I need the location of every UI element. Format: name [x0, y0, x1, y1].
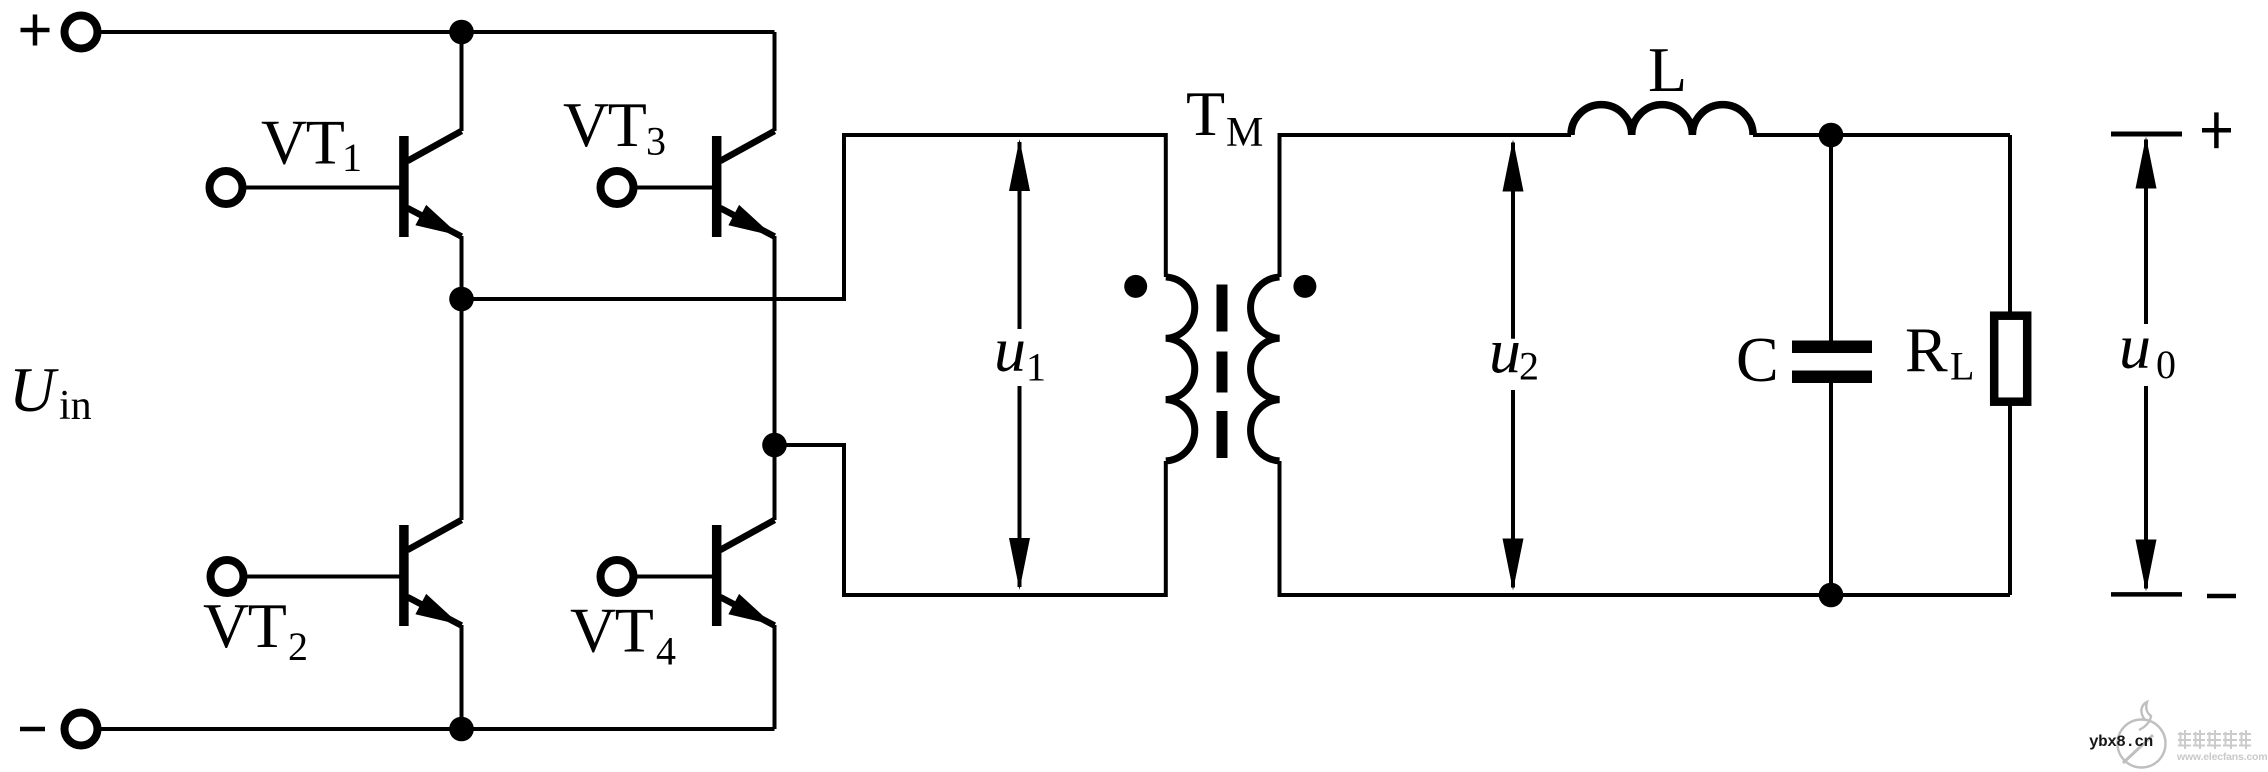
- svg-text:L: L: [1648, 34, 1687, 105]
- svg-text:M: M: [1226, 110, 1263, 156]
- node A (VT1-VT2 midpoint): [449, 287, 474, 312]
- svg-text:VT: VT: [261, 107, 345, 178]
- wire VT1 emitter to node A: [460, 236, 464, 300]
- svg-text:VT: VT: [203, 590, 287, 661]
- svg-text:2: 2: [288, 624, 308, 669]
- svg-text:VT: VT: [563, 89, 647, 160]
- output + sign: [2202, 112, 2231, 148]
- minus sign (input -): [20, 727, 45, 732]
- watermark logo circle: [2118, 702, 2166, 768]
- svg-text:0: 0: [2156, 342, 2176, 387]
- svg-text:u: u: [2119, 311, 2151, 382]
- transformer TM secondary winding: [1251, 133, 1280, 597]
- svg-text:4: 4: [656, 629, 676, 674]
- resistor RL body: [1994, 316, 2027, 402]
- wire VT3 emitter to node B: [773, 236, 777, 446]
- wire node A to VT2 collector: [460, 299, 464, 520]
- transistor VT3: [601, 131, 775, 237]
- svg-text:C: C: [1736, 324, 1779, 395]
- wire top input rail: [100, 30, 775, 34]
- transistor VT4: [601, 520, 775, 626]
- wire RL bottom lead: [2008, 401, 2012, 595]
- watermark chinese strokes: [2178, 730, 2251, 749]
- svg-text:1: 1: [342, 135, 362, 180]
- transformer TM core (dashed): [1217, 285, 1228, 459]
- measurement arrow u1: [1009, 139, 1030, 590]
- junction bottom rail / VT2 emitter: [449, 717, 474, 742]
- transistor VT1: [210, 131, 462, 237]
- svg-text:VT: VT: [570, 595, 654, 666]
- measurement arrow u0: [2136, 137, 2157, 592]
- polarity dot primary: [1124, 275, 1147, 298]
- wire primary top horizontal: [842, 133, 1166, 137]
- tick bottom of u0: [2111, 592, 2182, 597]
- wire primary downer down: [842, 443, 846, 597]
- svg-text:2: 2: [1519, 344, 1539, 389]
- svg-text:T: T: [1186, 78, 1225, 149]
- polarity dot secondary: [1293, 275, 1316, 298]
- wire secondary bottom rail: [1280, 593, 2011, 597]
- wire VT4 emitter vertical: [773, 625, 777, 729]
- svg-text:ybx8.cn: ybx8.cn: [2089, 733, 2153, 751]
- svg-text:L: L: [1950, 344, 1974, 389]
- svg-text:1: 1: [1026, 345, 1046, 390]
- svg-text:u: u: [994, 314, 1026, 385]
- svg-text:in: in: [59, 383, 92, 429]
- svg-text:www.elecfans.com: www.elecfans.com: [2176, 751, 2267, 763]
- svg-text:u: u: [1489, 316, 1521, 387]
- wire node B to VT4 collector: [773, 445, 777, 520]
- wire secondary top to L: [1280, 133, 1572, 137]
- svg-text:R: R: [1905, 315, 1948, 386]
- capacitor C plates: [1792, 341, 1872, 384]
- wire node A to primary riser: [462, 297, 845, 301]
- wire VT3 collector vertical: [773, 32, 777, 131]
- input - terminal: [65, 713, 98, 746]
- input + terminal: [65, 16, 98, 49]
- wire C top lead: [1829, 135, 1833, 341]
- wire node B to primary downer: [775, 443, 847, 447]
- transformer TM primary winding: [1166, 133, 1195, 597]
- junction C top: [1819, 123, 1844, 148]
- measurement arrow u2: [1503, 140, 1524, 591]
- inductor L: [1571, 105, 1753, 135]
- wire bottom input rail: [100, 727, 775, 731]
- wire C bottom lead: [1829, 383, 1833, 595]
- plus sign (input +): [21, 15, 50, 46]
- wire L to RL top: [1753, 133, 2010, 137]
- svg-text:3: 3: [646, 119, 666, 164]
- wire VT2 emitter vertical: [460, 625, 464, 729]
- wire RL top lead: [2008, 135, 2012, 317]
- wire primary riser up: [842, 133, 846, 301]
- wire VT1 collector vertical: [460, 32, 464, 131]
- tick top of u0: [2111, 132, 2182, 137]
- svg-text:U: U: [9, 354, 59, 425]
- node B (VT3-VT4 midpoint): [762, 433, 787, 458]
- junction C bottom: [1819, 583, 1844, 608]
- junction top rail / VT1 collector: [449, 20, 474, 45]
- wire primary bottom horizontal: [842, 593, 1166, 597]
- transistor VT2: [211, 520, 462, 626]
- output - sign: [2207, 594, 2236, 599]
